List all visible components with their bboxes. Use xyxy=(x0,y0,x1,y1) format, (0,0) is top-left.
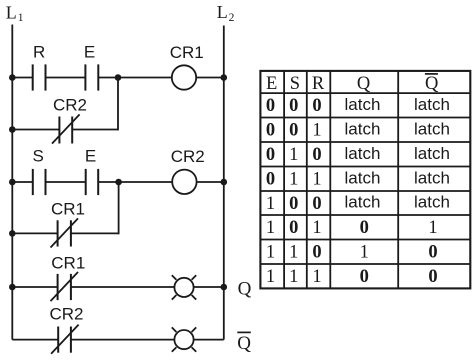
svg-text:Q: Q xyxy=(238,278,252,299)
svg-text:1: 1 xyxy=(266,267,275,287)
svg-text:0: 0 xyxy=(312,194,321,214)
svg-text:E: E xyxy=(84,43,95,62)
svg-text:latch: latch xyxy=(414,168,450,187)
junction rung1 left rail xyxy=(9,74,16,81)
truth table header xyxy=(266,74,439,94)
right power rail L2 xyxy=(223,26,225,340)
svg-text:0: 0 xyxy=(312,96,321,116)
svg-text:Q: Q xyxy=(357,74,371,94)
svg-text:1: 1 xyxy=(428,218,437,238)
svg-text:0: 0 xyxy=(289,218,298,238)
coil CR2 xyxy=(172,170,196,194)
node L1 label xyxy=(6,2,24,24)
svg-text:1: 1 xyxy=(360,243,369,263)
contact CR2 (NC) rung 4 xyxy=(51,325,79,354)
svg-text:latch: latch xyxy=(414,144,450,163)
svg-text:2: 2 xyxy=(229,12,235,24)
svg-text:0: 0 xyxy=(360,267,369,287)
svg-text:Q: Q xyxy=(237,333,251,354)
svg-text:L: L xyxy=(6,2,17,22)
svg-text:latch: latch xyxy=(345,144,381,163)
node Q-bar label xyxy=(237,332,251,353)
svg-text:0: 0 xyxy=(312,243,321,263)
svg-text:1: 1 xyxy=(266,194,275,214)
truth table header Q-bar overline xyxy=(425,73,438,75)
svg-text:CR1: CR1 xyxy=(170,43,204,62)
svg-text:latch: latch xyxy=(414,119,450,138)
svg-text:0: 0 xyxy=(428,243,437,263)
svg-text:E: E xyxy=(85,147,96,166)
node L2 label xyxy=(217,2,235,24)
svg-text:1: 1 xyxy=(312,218,321,238)
junction rung1 right rail xyxy=(221,74,228,81)
svg-text:R: R xyxy=(33,43,45,62)
svg-text:1: 1 xyxy=(312,170,321,190)
svg-text:0: 0 xyxy=(289,96,298,116)
svg-text:L: L xyxy=(217,2,228,22)
svg-text:1: 1 xyxy=(312,267,321,287)
svg-text:0: 0 xyxy=(360,218,369,238)
junction rung2/branch2 xyxy=(115,179,122,186)
wire rung 3 xyxy=(12,286,224,288)
coil CR1 xyxy=(172,65,196,89)
svg-text:0: 0 xyxy=(289,121,298,141)
svg-text:Q: Q xyxy=(425,74,439,94)
junction branch2 left rail xyxy=(9,230,16,237)
svg-text:0: 0 xyxy=(428,267,437,287)
wire branch 1 (seal-in) xyxy=(12,78,118,131)
svg-text:0: 0 xyxy=(266,145,275,165)
svg-text:latch: latch xyxy=(345,168,381,187)
svg-text:S: S xyxy=(33,147,44,166)
svg-text:latch: latch xyxy=(414,95,450,114)
contact E (NO) rung 1 xyxy=(85,64,98,90)
lamp Q xyxy=(172,275,196,299)
svg-text:1: 1 xyxy=(266,243,275,263)
svg-text:CR1: CR1 xyxy=(51,200,85,219)
left power rail L1 xyxy=(11,25,13,340)
svg-text:1: 1 xyxy=(289,267,298,287)
truth table latch cells xyxy=(345,95,450,212)
svg-text:CR2: CR2 xyxy=(49,305,83,324)
lamp Q-bar xyxy=(172,327,196,351)
svg-text:CR2: CR2 xyxy=(53,96,87,115)
contact R (NO) xyxy=(33,64,46,90)
svg-text:1: 1 xyxy=(289,170,298,190)
contact CR2 (NC) branch 1 xyxy=(52,114,80,143)
junction rung2 left rail xyxy=(9,179,16,186)
svg-text:1: 1 xyxy=(312,121,321,141)
svg-text:1: 1 xyxy=(18,12,24,24)
svg-text:latch: latch xyxy=(345,119,381,138)
contact CR1 (NC) rung 3 xyxy=(51,272,79,301)
svg-text:latch: latch xyxy=(345,193,381,212)
truth table data xyxy=(266,96,438,287)
svg-text:0: 0 xyxy=(289,194,298,214)
svg-text:0: 0 xyxy=(312,145,321,165)
svg-text:latch: latch xyxy=(345,95,381,114)
svg-text:CR1: CR1 xyxy=(51,254,85,273)
svg-text:1: 1 xyxy=(266,218,275,238)
wire rung 2 xyxy=(12,181,224,183)
svg-text:0: 0 xyxy=(266,170,275,190)
junction rung2 right rail xyxy=(221,179,228,186)
wire rung 1 xyxy=(12,77,224,79)
svg-text:0: 0 xyxy=(266,96,275,116)
svg-text:latch: latch xyxy=(414,193,450,212)
svg-text:1: 1 xyxy=(289,243,298,263)
contact S (NO) xyxy=(33,169,46,195)
svg-text:1: 1 xyxy=(289,145,298,165)
svg-text:E: E xyxy=(266,74,277,94)
contact E (NO) rung 2 xyxy=(86,169,99,195)
contact CR1 (NC) branch 2 xyxy=(51,218,79,247)
svg-text:R: R xyxy=(312,74,325,94)
junction rung1/branch1 xyxy=(115,74,122,81)
junction rung3 left rail xyxy=(9,284,16,291)
svg-text:CR2: CR2 xyxy=(171,147,205,166)
junction rung3 right rail xyxy=(221,284,228,291)
svg-text:S: S xyxy=(290,74,300,94)
svg-text:0: 0 xyxy=(266,121,275,141)
wire branch 2 (seal-in) xyxy=(12,182,118,234)
truth table grid xyxy=(260,71,470,289)
wire rung 4 xyxy=(12,339,224,341)
junction branch1 left rail xyxy=(9,126,16,133)
